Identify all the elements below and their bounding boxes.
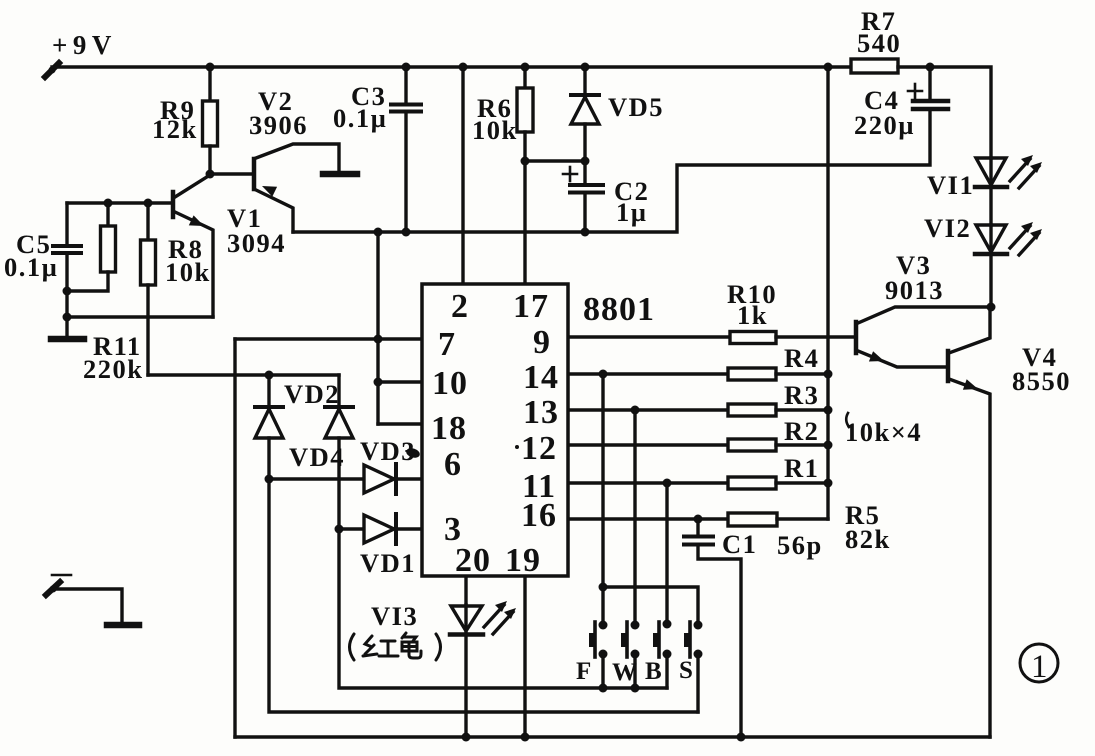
ground left bbox=[51, 336, 84, 343]
svg-text:8801: 8801 bbox=[583, 291, 655, 328]
junction V3 collector / LED chain bbox=[987, 303, 996, 312]
transistor V2 bbox=[254, 144, 339, 232]
junction y375-VD2 bbox=[265, 371, 274, 380]
svg-text:82k: 82k bbox=[845, 524, 891, 554]
switch S bbox=[684, 621, 703, 713]
junction R6-C2 bbox=[521, 157, 530, 166]
junction rail-R7left bbox=[824, 63, 833, 72]
wire pin7 bbox=[235, 337, 422, 340]
junction x828-R4 bbox=[824, 370, 833, 379]
svg-text:12k: 12k bbox=[152, 114, 198, 144]
svg-text:1µ: 1µ bbox=[616, 197, 648, 227]
resistor R10 bbox=[730, 332, 776, 344]
junction x828-R1 bbox=[824, 479, 833, 488]
wire R1 right bbox=[776, 481, 828, 484]
svg-text:540: 540 bbox=[857, 28, 901, 58]
svg-text:7: 7 bbox=[438, 326, 456, 363]
wire R2 right bbox=[776, 443, 828, 446]
wire VD4 anode down and bottom bus y688 bbox=[339, 438, 667, 688]
wire pin18 bbox=[378, 422, 422, 425]
wire V1 emitter line y317 bbox=[67, 315, 213, 318]
resistor R6 bbox=[517, 67, 533, 284]
junction pin14-F column bbox=[599, 370, 608, 379]
svg-text:R1: R1 bbox=[784, 453, 819, 483]
wire R10 to V3 base bbox=[776, 335, 855, 338]
resistor R1 bbox=[728, 477, 776, 489]
junction pin7-x378 bbox=[374, 335, 383, 344]
junction y232-C3 bbox=[402, 228, 411, 237]
svg-text:VD5: VD5 bbox=[608, 92, 664, 122]
junction rail-pin2 bbox=[459, 63, 468, 72]
label 10kx4 tick artifact bbox=[846, 413, 849, 427]
resistor R5 bbox=[728, 513, 777, 526]
wire pin12 to R2 bbox=[569, 443, 728, 446]
switch B bbox=[653, 620, 672, 689]
svg-text:10: 10 bbox=[432, 365, 468, 402]
junction pin16-C1 bbox=[694, 515, 703, 524]
svg-text:F: F bbox=[576, 658, 591, 685]
resistor R8 bbox=[141, 203, 156, 375]
wire pin14 to R4 bbox=[569, 372, 728, 375]
LED VI1 bbox=[975, 155, 1042, 225]
junction VD4-VD1line bbox=[335, 525, 344, 534]
junction F bottom bbox=[599, 684, 608, 693]
junction rail-pin19 bbox=[521, 733, 530, 742]
node minus terminal bbox=[46, 575, 122, 623]
diode VD2 bbox=[255, 375, 283, 438]
junction rail-C1 bbox=[737, 733, 746, 742]
svg-text:20: 20 bbox=[455, 542, 491, 579]
svg-text:3094: 3094 bbox=[227, 228, 286, 258]
wire +9V rail right bbox=[898, 67, 991, 158]
svg-text:0.1µ: 0.1µ bbox=[4, 252, 58, 282]
junction rail-R6 bbox=[521, 63, 530, 72]
wire pin9 to R10 bbox=[569, 335, 730, 338]
junction pin11-B column bbox=[663, 479, 672, 488]
junction y232-C2 bbox=[581, 228, 590, 237]
svg-text:6: 6 bbox=[444, 446, 462, 483]
op-amp U1 8801 IC body bbox=[422, 284, 568, 576]
capacitor C5 bbox=[53, 203, 81, 291]
wire pin11 to R1 bbox=[569, 481, 728, 484]
wire bottom rail bbox=[235, 735, 990, 738]
junction emitter line bbox=[63, 313, 72, 322]
wire pin16 to R5 bbox=[569, 517, 728, 520]
diode VD5 bbox=[571, 67, 599, 161]
node dot artifact before pin12 bbox=[515, 445, 519, 449]
wire switch column W bbox=[633, 410, 636, 625]
wire R5 right bbox=[777, 517, 828, 520]
diode VD3 bbox=[269, 464, 422, 494]
wire pin2 bbox=[461, 67, 464, 284]
junction rail-VD5 bbox=[581, 63, 590, 72]
wire R3 right bbox=[776, 408, 828, 411]
wire pins 7/10/18 column x378 bbox=[376, 232, 379, 424]
svg-text:+9V: +9V bbox=[52, 30, 117, 60]
wire pin10 bbox=[378, 380, 422, 383]
junction rail-C4 bbox=[926, 63, 935, 72]
junction rail-R9 bbox=[206, 63, 215, 72]
resistor R4 bbox=[728, 368, 776, 380]
wire down to ground bbox=[65, 291, 68, 337]
node +9V terminal bbox=[45, 63, 59, 77]
resistor R7 bbox=[851, 59, 898, 73]
diode VD1 bbox=[339, 514, 422, 544]
node VD3 ink blob bbox=[405, 447, 421, 460]
svg-text:10k: 10k bbox=[472, 115, 518, 145]
ground minus terminal bbox=[107, 622, 139, 629]
wire pin20 bbox=[464, 577, 467, 605]
wire R4 right bbox=[776, 372, 828, 375]
svg-text:10k×4: 10k×4 bbox=[845, 417, 922, 447]
junction y203-R11 bbox=[104, 199, 113, 208]
capacitor C3 bbox=[391, 67, 421, 232]
LED VI2 bbox=[975, 222, 1042, 307]
svg-text:16: 16 bbox=[521, 497, 557, 534]
junction C5 bottom bbox=[63, 287, 72, 296]
svg-text:9: 9 bbox=[533, 324, 551, 361]
node circled 1 bbox=[1020, 644, 1058, 685]
junction pin10-x378 bbox=[374, 378, 383, 387]
svg-text:13: 13 bbox=[523, 394, 559, 431]
svg-text:220k: 220k bbox=[83, 354, 144, 384]
svg-text:10k: 10k bbox=[165, 257, 211, 287]
junction W bottom bbox=[631, 684, 640, 693]
wire switch column F bbox=[601, 374, 604, 625]
wire VD2 anode down and bottom bus y712 bbox=[269, 438, 698, 712]
wire R6 to VD5 bottom bbox=[525, 159, 585, 162]
svg-text:17: 17 bbox=[513, 288, 549, 325]
switch F bbox=[589, 621, 608, 689]
svg-text:VD2: VD2 bbox=[284, 379, 340, 409]
capacitor C4 bbox=[908, 67, 948, 109]
svg-text:220µ: 220µ bbox=[854, 110, 915, 140]
svg-text:56p: 56p bbox=[777, 530, 823, 560]
junction VD2-VD3line bbox=[265, 475, 274, 484]
junction F column y587 bbox=[599, 583, 608, 592]
svg-text:1: 1 bbox=[1031, 649, 1048, 685]
resistor R9 bbox=[203, 67, 218, 174]
node V1 collector junction bbox=[206, 170, 215, 179]
wire V1 collector to V2 base bbox=[210, 172, 253, 175]
resistor R3 bbox=[728, 404, 776, 416]
wire V2 emitter bus y232 to C4 bbox=[293, 111, 930, 232]
transistor V4 bbox=[948, 307, 990, 737]
capacitor C2 bbox=[563, 157, 603, 233]
junction rail-VI3 bbox=[462, 733, 471, 742]
svg-text:19: 19 bbox=[505, 542, 541, 579]
svg-text:W: W bbox=[612, 659, 637, 686]
diode VD4 bbox=[325, 375, 353, 438]
label red color bbox=[350, 633, 441, 660]
wire ground loop left x235 bbox=[233, 339, 236, 737]
svg-text:12: 12 bbox=[521, 430, 557, 467]
wire pin13 to R3 bbox=[569, 408, 728, 411]
wire R8 to diode row y375 bbox=[148, 373, 339, 376]
switch W bbox=[621, 621, 640, 689]
svg-text:VI2: VI2 bbox=[924, 213, 971, 243]
svg-text:R2: R2 bbox=[784, 416, 819, 446]
wire pin19 bbox=[523, 577, 526, 737]
wire +9V rail left bbox=[52, 65, 852, 68]
wire +9V pullup column x828 bbox=[826, 67, 829, 519]
svg-text:VD1: VD1 bbox=[360, 548, 416, 578]
junction y232-x378 bbox=[374, 228, 383, 237]
wire y587 to S top bbox=[603, 587, 698, 625]
resistor R11 bbox=[67, 203, 116, 291]
resistor R2 bbox=[728, 439, 776, 451]
junction x828-R3 bbox=[824, 406, 833, 415]
svg-text:9013: 9013 bbox=[885, 275, 944, 305]
capacitor C1 bbox=[684, 519, 741, 737]
svg-text:VI3: VI3 bbox=[371, 601, 418, 631]
svg-text:1k: 1k bbox=[737, 300, 768, 330]
svg-text:R4: R4 bbox=[784, 343, 819, 373]
svg-text:VI1: VI1 bbox=[927, 170, 974, 200]
svg-text:VD4: VD4 bbox=[289, 442, 345, 472]
svg-text:2: 2 bbox=[451, 288, 469, 325]
svg-text:0.1µ: 0.1µ bbox=[333, 103, 387, 133]
wire switch column B bbox=[665, 483, 668, 624]
transistor V1 bbox=[173, 175, 213, 317]
svg-text:C1: C1 bbox=[722, 529, 757, 559]
LED VI3 bbox=[450, 601, 516, 737]
wire base line y203 bbox=[67, 201, 172, 204]
junction x828-R2 bbox=[824, 441, 833, 450]
svg-text:3906: 3906 bbox=[249, 110, 308, 140]
junction pin13-W column bbox=[631, 406, 640, 415]
svg-text:14: 14 bbox=[523, 359, 559, 396]
ground V2 collector bbox=[323, 171, 357, 178]
junction y203-R8 bbox=[144, 199, 153, 208]
svg-text:B: B bbox=[645, 658, 662, 685]
svg-text:18: 18 bbox=[431, 410, 467, 447]
junction rail-C3 bbox=[402, 63, 411, 72]
svg-text:8550: 8550 bbox=[1012, 366, 1071, 396]
svg-text:R3: R3 bbox=[784, 380, 819, 410]
svg-text:S: S bbox=[679, 657, 693, 684]
transistor V3 bbox=[856, 307, 991, 367]
